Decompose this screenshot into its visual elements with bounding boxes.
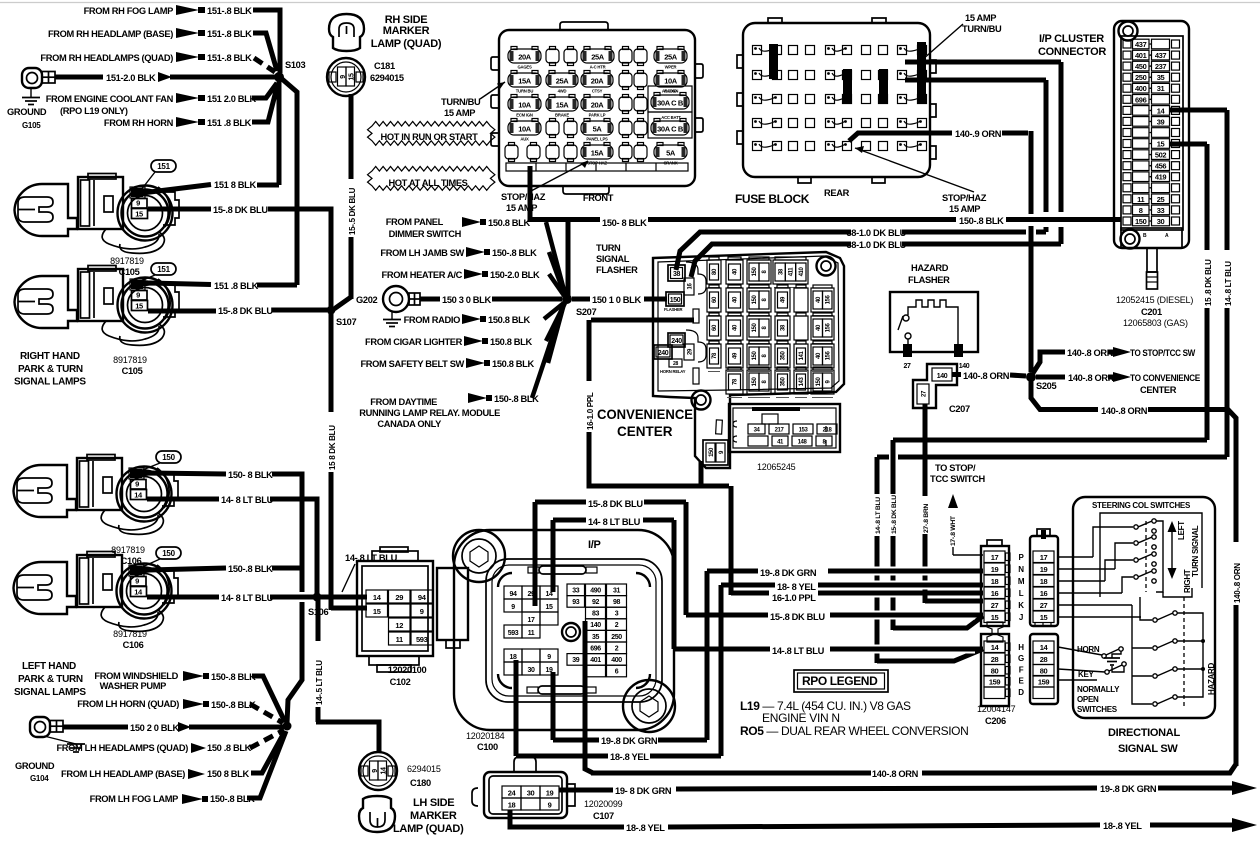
svg-text:15-.8 DK BLU: 15-.8 DK BLU: [213, 205, 268, 215]
horn relay cells 240/29: [668, 333, 685, 347]
svg-text:RO5 — DUAL REAR WHEEL CONVERSI: RO5 — DUAL REAR WHEEL CONVERSION: [740, 724, 968, 738]
svg-text:25A: 25A: [664, 53, 678, 62]
svg-text:30A C B: 30A C B: [657, 99, 684, 108]
svg-text:150.8 BLK: 150.8 BLK: [488, 218, 530, 228]
svg-text:I/P CLUSTER: I/P CLUSTER: [1039, 33, 1104, 45]
svg-text:15-.5 DK BLU: 15-.5 DK BLU: [348, 187, 357, 235]
svg-text:FROM LH HORN (QUAD): FROM LH HORN (QUAD): [77, 699, 179, 709]
svg-text:G105: G105: [22, 121, 41, 130]
svg-text:16: 16: [1040, 589, 1048, 598]
svg-text:27: 27: [1040, 601, 1048, 610]
svg-text:MARKER: MARKER: [410, 810, 457, 822]
svg-text:9: 9: [420, 607, 424, 616]
svg-text:140-.8 ORN: 140-.8 ORN: [1068, 373, 1115, 383]
svg-text:10A: 10A: [664, 77, 678, 86]
svg-text:15A: 15A: [518, 77, 532, 86]
hot in run or start box: [368, 122, 495, 146]
hot at all times box: [368, 167, 495, 191]
svg-text:TO STOP/: TO STOP/: [935, 463, 976, 473]
svg-text:450: 450: [1135, 62, 1147, 71]
17-.8 WHT wire with arrow: [952, 547, 954, 555]
svg-text:C100: C100: [477, 742, 498, 752]
ground in switch: [1104, 657, 1120, 659]
wire cluster pin 14 -> 14-.8 LT BLU right side: [1169, 108, 1227, 113]
svg-text:WPER: WPER: [665, 65, 677, 70]
svg-text:18-.8 YEL: 18-.8 YEL: [1103, 821, 1142, 831]
svg-text:16: 16: [991, 589, 999, 598]
svg-text:CONVENIENCE: CONVENIENCE: [597, 407, 693, 422]
svg-text:ACC IGN: ACC IGN: [662, 89, 678, 94]
wire S106 down to C180 14-.5 LT BLU: [316, 599, 321, 641]
svg-text:FROM CIGAR LIGHTER: FROM CIGAR LIGHTER: [365, 337, 463, 347]
svg-text:237: 237: [1155, 62, 1167, 71]
RPO legend box: [794, 670, 888, 692]
svg-text:DIRECTIONAL: DIRECTIONAL: [1108, 727, 1180, 739]
wire from STOP/HAZ fuse to S207: [566, 222, 571, 296]
svg-text:150-.8 BLK: 150-.8 BLK: [211, 700, 256, 710]
svg-text:15 AMP: 15 AMP: [506, 203, 537, 213]
svg-text:12065245: 12065245: [757, 462, 796, 472]
svg-text:10A: 10A: [518, 125, 532, 134]
svg-text:150-.8 BLK: 150-.8 BLK: [228, 564, 273, 574]
wire C100 pin14 up 14-.8 LT BLU: [551, 520, 556, 592]
svg-text:15: 15: [373, 607, 381, 616]
svg-text:38: 38: [673, 271, 680, 278]
svg-text:CENTER: CENTER: [1140, 385, 1177, 395]
bottom slot: [538, 686, 585, 694]
svg-text:696: 696: [1135, 95, 1147, 104]
svg-text:140-.9 ORN: 140-.9 ORN: [955, 129, 1002, 139]
wire 151 .8 BLK lamp2 to S103: [136, 283, 211, 285]
svg-text:18: 18: [510, 654, 517, 661]
svg-text:10A: 10A: [518, 101, 532, 110]
svg-text:419: 419: [1155, 173, 1167, 182]
svg-text:490: 490: [590, 587, 601, 594]
svg-text:38-1.0 DK BLU: 38-1.0 DK BLU: [846, 240, 906, 250]
svg-text:FLASHER: FLASHER: [664, 307, 683, 312]
svg-text:FROM LH HEADLAMP (BASE): FROM LH HEADLAMP (BASE): [61, 769, 185, 779]
wires from C206 pins into box: [1058, 556, 1093, 558]
connector C102: [357, 561, 433, 656]
wire into C102 pin 15: [331, 606, 367, 611]
S207 output 150 1 0 BLK: [572, 297, 590, 302]
svg-text:9: 9: [548, 801, 552, 810]
svg-text:A-C HTR: A-C HTR: [590, 65, 606, 70]
svg-text:14- 8 LT BLU: 14- 8 LT BLU: [221, 495, 274, 505]
svg-text:20A: 20A: [518, 53, 532, 62]
svg-text:HOT IN RUN OR START: HOT IN RUN OR START: [381, 132, 479, 142]
svg-text:140-.8 ORN: 140-.8 ORN: [1101, 406, 1148, 416]
svg-text:15-.8 DK BLU: 15-.8 DK BLU: [891, 495, 898, 534]
svg-text:LH SIDE: LH SIDE: [413, 797, 454, 809]
svg-text:WASHER PUMP: WASHER PUMP: [100, 681, 167, 691]
svg-text:11: 11: [1137, 195, 1144, 204]
svg-text:24: 24: [508, 789, 517, 798]
svg-text:FROM LH FOG LAMP: FROM LH FOG LAMP: [90, 794, 179, 804]
svg-text:TO STOP/TCC SW: TO STOP/TCC SW: [1130, 348, 1195, 358]
wire 15-.8 DK BLU lamp2 to S107: [148, 309, 216, 314]
svg-text:14: 14: [373, 593, 382, 602]
svg-text:18- 8 YEL: 18- 8 YEL: [777, 582, 816, 592]
svg-text:15: 15: [135, 210, 143, 219]
svg-text:FROM RH HEADLAMP (BASE): FROM RH HEADLAMP (BASE): [48, 29, 173, 39]
svg-text:140-.8 ORN: 140-.8 ORN: [963, 371, 1010, 381]
svg-text:FROM PANEL: FROM PANEL: [386, 217, 444, 227]
hazard switches: [1153, 618, 1157, 622]
svg-text:F: F: [1019, 666, 1024, 675]
wire C207 27 down 27-.8 BRN: [923, 404, 928, 496]
wire cluster pin 15 -> 15-.8 DK BLU right side: [1169, 142, 1207, 147]
svg-text:STOP/HAZ: STOP/HAZ: [942, 193, 987, 203]
wire from cigar lighter 150.8 BLK: [546, 303, 565, 341]
svg-text:PARK LP: PARK LP: [589, 113, 606, 118]
svg-text:15: 15: [135, 302, 143, 311]
svg-text:151 8 BLK: 151 8 BLK: [214, 180, 256, 190]
svg-text:15A: 15A: [556, 101, 570, 110]
svg-text:GROUND: GROUND: [15, 761, 55, 771]
140-.9 ORN wire from fuse block to S205: [849, 133, 952, 141]
svg-text:FROM ENGINE COOLANT FAN: FROM ENGINE COOLANT FAN: [46, 94, 174, 104]
svg-text:16-1.0 PPL: 16-1.0 PPL: [586, 392, 595, 430]
svg-text:11: 11: [528, 630, 535, 637]
svg-text:15: 15: [349, 73, 356, 80]
wire 151 8 BLK lamp1 to S103: [136, 185, 211, 195]
LH side marker lamp bulb: [359, 796, 395, 832]
wire from LH jamb sw 150-.8 BLK: [549, 252, 565, 296]
svg-text:RIGHT HAND: RIGHT HAND: [20, 351, 80, 362]
wire 150- 8 BLK lamp3: [135, 473, 226, 475]
svg-text:6294015: 6294015: [407, 764, 441, 774]
svg-text:14-.5 LT BLU: 14-.5 LT BLU: [315, 660, 324, 705]
svg-text:9: 9: [372, 769, 379, 773]
branch to stop/tcc sw 140-.8 ORN: [1033, 352, 1065, 373]
svg-text:151 2.0 BLK: 151 2.0 BLK: [207, 94, 256, 104]
svg-text:SIGNAL LAMPS: SIGNAL LAMPS: [14, 687, 86, 698]
svg-text:FRONT: FRONT: [583, 193, 614, 203]
svg-text:150- 8 BLK: 150- 8 BLK: [228, 470, 273, 480]
svg-text:14-.8 LT BLU: 14-.8 LT BLU: [772, 646, 825, 656]
C100 left grid upper: [504, 586, 522, 599]
svg-text:150-.8 BLK: 150-.8 BLK: [211, 672, 256, 682]
svg-text:151-2.0 BLK: 151-2.0 BLK: [106, 73, 156, 83]
svg-text:151: 151: [157, 162, 170, 171]
svg-text:150.8 BLK: 150.8 BLK: [492, 359, 534, 369]
svg-text:C207: C207: [949, 404, 970, 414]
svg-text:29: 29: [395, 593, 403, 602]
svg-text:ECM IGN: ECM IGN: [516, 113, 533, 118]
svg-text:35: 35: [1157, 73, 1165, 82]
svg-text:C106: C106: [123, 640, 144, 650]
svg-text:PANEL LPS: PANEL LPS: [586, 137, 608, 142]
svg-text:15 AMP: 15 AMP: [444, 108, 475, 118]
svg-text:6: 6: [615, 669, 619, 676]
C102 cells: [366, 590, 388, 603]
wire 150 2 0 BLK to G104 fan: [63, 725, 128, 730]
conv center bottom panel: [729, 404, 840, 452]
svg-text:(RPO L19 ONLY): (RPO L19 ONLY): [60, 106, 128, 116]
svg-text:401: 401: [1135, 51, 1147, 60]
svg-text:17-.8 WHT: 17-.8 WHT: [950, 515, 957, 546]
svg-text:350: 350: [781, 377, 787, 387]
svg-text:PARK & TURN: PARK & TURN: [18, 364, 83, 375]
wire C107 pin19 19-.8 DK GRN to right arrow: [559, 788, 613, 793]
svg-text:19- 8 DK GRN: 19- 8 DK GRN: [615, 786, 672, 796]
svg-text:19-.8 DK GRN: 19-.8 DK GRN: [601, 736, 658, 746]
svg-text:16-1.0 PPL: 16-1.0 PPL: [772, 593, 816, 603]
front fuse block outline: [499, 30, 695, 186]
svg-text:150 1 0 BLK: 150 1 0 BLK: [592, 295, 641, 305]
svg-text:20A: 20A: [591, 77, 605, 86]
svg-text:150 3 0 BLK: 150 3 0 BLK: [442, 295, 491, 305]
svg-text:593: 593: [416, 635, 428, 644]
wire from safety belt sw 150.8 BLK: [548, 304, 564, 363]
ground G105: [22, 68, 42, 88]
connector C107: [484, 772, 567, 818]
wire C100 pin19 down 19-.8 DK GRN: [551, 672, 556, 740]
C201 terminal rows: [1123, 40, 1131, 48]
svg-text:9: 9: [135, 577, 139, 586]
svg-text:9: 9: [135, 480, 139, 489]
svg-text:H: H: [1018, 643, 1024, 652]
wire C207 140 to S205 140-.8 ORN: [952, 372, 961, 377]
svg-text:93: 93: [572, 599, 579, 606]
svg-text:141: 141: [799, 351, 805, 361]
svg-text:14: 14: [1040, 643, 1049, 652]
wire fuse to S207 and cluster 150-.8 BLK: [528, 166, 533, 222]
svg-text:28: 28: [991, 655, 999, 664]
svg-text:14-.8 LT BLU: 14-.8 LT BLU: [875, 497, 882, 534]
svg-text:14-.8 LT BLU: 14-.8 LT BLU: [1224, 261, 1233, 306]
feeders to hazard contacts: [1140, 597, 1152, 620]
svg-text:C107: C107: [593, 811, 614, 821]
svg-text:437: 437: [1155, 51, 1167, 60]
svg-text:150: 150: [162, 549, 175, 558]
svg-text:140: 140: [590, 622, 601, 629]
svg-text:K: K: [1018, 601, 1024, 610]
svg-text:HAZARD: HAZARD: [911, 263, 949, 273]
svg-text:8: 8: [1139, 206, 1143, 215]
slots: [693, 309, 699, 323]
svg-text:CANADA ONLY: CANADA ONLY: [377, 419, 442, 429]
svg-text:LEFT: LEFT: [1177, 521, 1186, 540]
svg-text:FLASHER: FLASHER: [908, 275, 950, 285]
svg-text:GAGES: GAGES: [517, 65, 532, 70]
branch to convenience center 140-.8 ORN: [1036, 375, 1065, 380]
rear fuse block outline: [743, 23, 930, 177]
svg-text:ACC BATT: ACC BATT: [661, 115, 681, 120]
svg-text:TURN: TURN: [596, 243, 621, 253]
svg-text:19: 19: [546, 789, 554, 798]
svg-text:19: 19: [991, 565, 999, 574]
svg-text:G104: G104: [30, 774, 49, 783]
svg-text:FLASHER: FLASHER: [596, 265, 638, 275]
connector C206 left half: [981, 546, 1009, 626]
relay grid: [707, 260, 721, 284]
svg-text:150- 8 BLK: 150- 8 BLK: [602, 218, 647, 228]
svg-text:TURN/BU: TURN/BU: [441, 97, 481, 107]
svg-text:18-.8 YEL: 18-.8 YEL: [626, 823, 665, 833]
connector C207: [913, 364, 957, 408]
svg-text:9: 9: [547, 654, 551, 661]
C102 mating tab: [437, 568, 468, 640]
convenience center outline: [653, 252, 844, 468]
svg-text:TO CONVENIENCE: TO CONVENIENCE: [1130, 373, 1200, 383]
wire from radio 150.8 BLK: [544, 302, 565, 319]
svg-text:25A: 25A: [556, 77, 570, 86]
svg-text:218: 218: [823, 428, 833, 434]
svg-text:9: 9: [136, 291, 140, 300]
C201 bottom section: [1121, 228, 1182, 248]
svg-text:39: 39: [1157, 117, 1165, 126]
svg-text:LEFT HAND: LEFT HAND: [22, 661, 76, 672]
fuses front: [508, 49, 541, 63]
svg-text:15: 15: [546, 604, 553, 611]
stub conv center lower connector: [699, 461, 704, 486]
node S207: [562, 294, 572, 304]
svg-text:SIGNAL: SIGNAL: [596, 254, 630, 264]
svg-text:217: 217: [775, 428, 785, 434]
svg-text:150.8 BLK: 150.8 BLK: [490, 337, 532, 347]
svg-text:150-2.0 BLK: 150-2.0 BLK: [490, 270, 540, 280]
wire S103 down to lamp2 151: [282, 79, 297, 285]
svg-text:FROM RH HORN: FROM RH HORN: [104, 118, 174, 128]
C100 corner lobes: [453, 530, 505, 582]
svg-text:28: 28: [1040, 655, 1048, 664]
svg-text:RUNNING LAMP RELAY. MODULE: RUNNING LAMP RELAY. MODULE: [359, 408, 500, 418]
wire from heater A/C 150-2.0 BLK: [549, 274, 565, 297]
svg-text:15 AMP: 15 AMP: [949, 204, 980, 214]
steering col switches box: [1073, 497, 1215, 718]
svg-text:HORN RELAY: HORN RELAY: [660, 369, 686, 374]
svg-text:15: 15: [1040, 613, 1048, 622]
C100 right grid: [567, 584, 585, 596]
svg-text:25A: 25A: [591, 53, 605, 62]
svg-text:TURN/BU: TURN/BU: [962, 24, 1002, 34]
svg-text:140-.8 ORN: 140-.8 ORN: [1233, 563, 1242, 603]
svg-text:27: 27: [991, 601, 999, 610]
branch down-right 140-.8 ORN long run: [1031, 380, 1098, 410]
svg-text:410: 410: [799, 267, 805, 277]
I/P cluster connector body C201: [1114, 21, 1189, 248]
svg-text:G202: G202: [356, 295, 378, 305]
svg-text:159: 159: [989, 678, 1001, 687]
svg-text:35: 35: [592, 634, 599, 641]
svg-text:14: 14: [134, 491, 143, 500]
wire 150-.8 BLK lamp4: [135, 568, 226, 572]
svg-text:SWITCHES: SWITCHES: [1077, 705, 1118, 714]
svg-text:250: 250: [1135, 73, 1147, 82]
lamp RH park/turn #1 (C105): [15, 174, 180, 254]
svg-text:150-.8 BLK: 150-.8 BLK: [959, 216, 1004, 226]
svg-text:156: 156: [825, 351, 831, 361]
svg-text:RPO LEGEND: RPO LEGEND: [802, 674, 878, 688]
installed fuse bars: [769, 44, 778, 79]
svg-text:12004147: 12004147: [977, 704, 1016, 714]
svg-text:39: 39: [572, 657, 579, 664]
svg-text:FROM SAFETY BELT SW: FROM SAFETY BELT SW: [360, 359, 464, 369]
svg-text:150.8 BLK: 150.8 BLK: [488, 315, 530, 325]
circuit breakers: [648, 86, 692, 112]
wire 151-2.0 BLK to S103: [55, 75, 103, 80]
wire from panel dimmer switch 150.8 BLK: [546, 222, 565, 294]
svg-text:150 8 BLK: 150 8 BLK: [207, 769, 249, 779]
svg-text:27-.8 BRN: 27-.8 BRN: [923, 504, 930, 533]
top slot: [539, 566, 586, 574]
turn signal contacts: [1134, 525, 1138, 529]
wire C100 pin18 down 18-.8 YEL: [514, 660, 519, 756]
svg-text:S205: S205: [1036, 381, 1056, 391]
svg-text:502: 502: [1155, 151, 1167, 160]
node S103: [274, 72, 284, 82]
svg-text:N: N: [1018, 565, 1024, 574]
svg-text:15 8 DK BLU: 15 8 DK BLU: [328, 425, 337, 470]
node S205: [1026, 372, 1036, 382]
svg-text:400: 400: [611, 657, 622, 664]
svg-text:30A C B: 30A C B: [657, 125, 684, 134]
svg-text:5A: 5A: [666, 149, 676, 158]
C100 inner border: [486, 559, 662, 702]
svg-text:FROM DAYTIME: FROM DAYTIME: [370, 397, 437, 407]
svg-text:83: 83: [592, 611, 599, 618]
svg-text:12020100: 12020100: [388, 665, 427, 675]
svg-text:92: 92: [592, 599, 599, 606]
connector C206 right half (switch side): [1030, 536, 1058, 626]
svg-text:FROM RH HEADLAMPS (QUAD): FROM RH HEADLAMPS (QUAD): [40, 53, 173, 63]
38-1.0 DK BLU horizontals to convenience center: [1036, 230, 1046, 235]
svg-text:150 .8 BLK: 150 .8 BLK: [207, 743, 252, 753]
turn signal base bar: [1163, 588, 1192, 597]
svg-text:19-.8 DK GRN: 19-.8 DK GRN: [1100, 784, 1157, 794]
svg-text:696: 696: [590, 645, 601, 652]
svg-text:NORMALLY: NORMALLY: [1077, 685, 1120, 694]
svg-text:15: 15: [991, 613, 999, 622]
svg-text:S107: S107: [336, 317, 356, 327]
svg-text:15 .8 DK BLU: 15 .8 DK BLU: [1204, 259, 1213, 306]
svg-text:C102: C102: [390, 677, 411, 687]
svg-text:12052415 (DIESEL): 12052415 (DIESEL): [1116, 295, 1193, 305]
svg-text:98: 98: [613, 599, 620, 606]
svg-text:15 AMP: 15 AMP: [965, 13, 996, 23]
svg-text:156: 156: [825, 323, 831, 333]
svg-text:LAMP (QUAD): LAMP (QUAD): [371, 38, 442, 50]
svg-text:150: 150: [752, 323, 758, 333]
svg-text:M: M: [1018, 577, 1025, 586]
svg-text:151-.8 BLK: 151-.8 BLK: [207, 6, 252, 16]
svg-text:8917819: 8917819: [111, 545, 145, 555]
RH side marker lamp bulb: [329, 14, 364, 51]
center ring: [562, 623, 580, 641]
svg-text:C181: C181: [374, 61, 395, 71]
node G104 fan: [283, 722, 292, 731]
svg-text:C105: C105: [122, 366, 143, 376]
svg-text:151-.8 BLK: 151-.8 BLK: [207, 29, 252, 39]
svg-text:31: 31: [613, 587, 620, 594]
svg-text:150: 150: [752, 377, 758, 387]
svg-text:OPEN: OPEN: [1077, 695, 1099, 704]
svg-text:15-.8 DK BLU: 15-.8 DK BLU: [770, 612, 825, 622]
svg-text:C201: C201: [1141, 307, 1162, 317]
svg-text:9: 9: [136, 199, 140, 208]
lamp LH park/turn #3 (C106): [14, 455, 179, 535]
corner arcs: [498, 573, 512, 587]
svg-text:150: 150: [752, 351, 758, 361]
svg-text:33: 33: [1157, 206, 1165, 215]
svg-text:156: 156: [825, 295, 831, 305]
svg-text:143: 143: [799, 377, 805, 387]
svg-text:FROM WINDSHIELD: FROM WINDSHIELD: [94, 671, 178, 681]
lamp RH park/turn #2 (C105): [15, 266, 180, 346]
svg-text:150: 150: [709, 447, 715, 457]
